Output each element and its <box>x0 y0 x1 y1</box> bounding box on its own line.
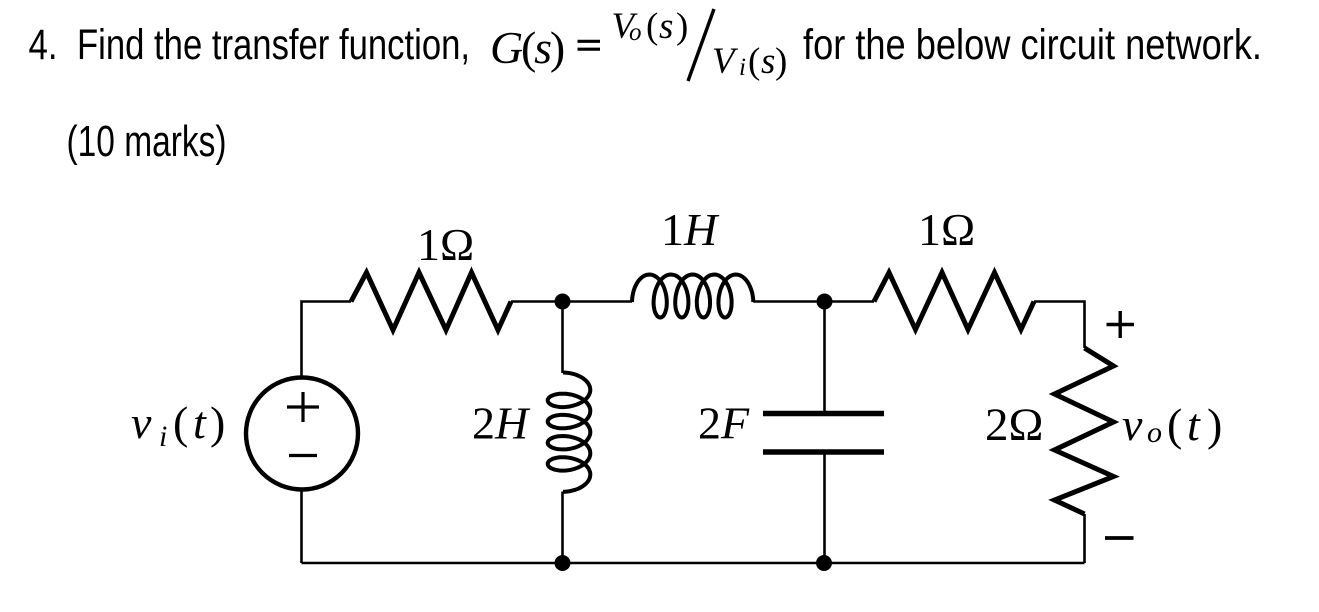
output minus sign <box>1105 536 1134 540</box>
svg-text:t: t <box>193 397 207 448</box>
svg-text:): ) <box>775 41 787 82</box>
wire: R2 to top-right corner down to R3 <box>1034 302 1085 349</box>
svg-text:1Ω: 1Ω <box>417 219 474 270</box>
svg-text:o: o <box>1147 416 1162 449</box>
equation denominator V_i(s) <box>712 41 787 82</box>
svg-text:): ) <box>210 397 225 448</box>
junction dot bottom of 2H branch <box>555 555 571 571</box>
label R3 value 2Ω <box>985 399 1043 451</box>
label R1 value 1Ω <box>417 219 474 270</box>
voltage source minus sign <box>289 454 317 457</box>
node B junction dot (top of 2F branch) <box>817 294 833 310</box>
wire: node A to inductor L1 <box>563 300 633 303</box>
voltage source plus sign <box>287 392 319 422</box>
svg-text:4.: 4. <box>29 21 58 69</box>
wire: source top to resistor R1 <box>302 302 352 378</box>
svg-text:G(s): G(s) <box>490 22 564 73</box>
title text "Find the transfer function," <box>77 21 470 69</box>
capacitor C1 bottom plate <box>763 449 884 455</box>
svg-text:1H: 1H <box>661 204 720 255</box>
resistor R1 1ohm zigzag <box>351 273 511 331</box>
node A junction dot (top of 2H branch) <box>555 294 571 310</box>
title text "for the below circuit network." <box>803 21 1262 69</box>
equation G(s) = <box>490 22 600 73</box>
resistor R3 2ohm vertical zigzag <box>1055 348 1114 514</box>
svg-text:i: i <box>739 54 746 81</box>
wire: inductor L2 to bottom rail <box>561 492 564 564</box>
svg-text:s: s <box>659 6 673 47</box>
svg-text:(: ( <box>1167 399 1182 450</box>
wire: source bottom to bottom rail <box>300 490 303 564</box>
wire: node B to resistor R2 <box>825 300 875 303</box>
equation fraction slash <box>688 9 714 81</box>
label L1 value 1H <box>661 204 720 255</box>
wire: capacitor C1 to bottom rail <box>823 455 826 564</box>
inductor L1 1H horizontal coil <box>632 275 753 318</box>
resistor R2 1ohm zigzag <box>874 273 1034 330</box>
wire: node B down to capacitor C1 <box>823 302 826 412</box>
capacitor C1 top plate <box>763 411 884 417</box>
svg-text:1Ω: 1Ω <box>918 204 975 255</box>
svg-text:2F: 2F <box>698 398 750 449</box>
wire: inductor L1 to node B <box>753 300 824 303</box>
svg-text:2Ω: 2Ω <box>985 399 1043 451</box>
svg-text:for the below circuit network.: for the below circuit network. <box>803 21 1262 69</box>
marks text "(10 marks)" <box>67 117 227 166</box>
svg-text:): ) <box>676 6 688 47</box>
wire: node A down to inductor L2 <box>561 302 564 374</box>
svg-text:(: ( <box>173 397 188 448</box>
svg-text:V: V <box>712 41 739 82</box>
svg-text:i: i <box>159 420 167 453</box>
svg-text:(10 marks): (10 marks) <box>67 117 227 166</box>
svg-text:(: ( <box>646 6 658 47</box>
label R2 value 1Ω <box>918 204 975 255</box>
problem number text "4." <box>29 21 58 69</box>
label C1 value 2F <box>698 398 750 449</box>
svg-text:s: s <box>761 41 775 82</box>
svg-text:2H: 2H <box>472 398 531 449</box>
svg-text:t: t <box>1187 399 1201 450</box>
svg-text:v: v <box>1122 399 1143 450</box>
label L2 value 2H <box>472 398 531 449</box>
svg-text:(: ( <box>748 41 760 82</box>
bottom rail wire <box>302 562 1085 565</box>
svg-text:v: v <box>131 397 152 448</box>
label v_i(t) <box>131 397 225 453</box>
wire: R1 to node A <box>511 300 563 303</box>
svg-text:o: o <box>629 19 642 46</box>
output plus sign <box>1107 311 1135 338</box>
label v_o(t) <box>1122 399 1222 450</box>
svg-text:): ) <box>1207 399 1222 450</box>
svg-text:Find the transfer function,: Find the transfer function, <box>77 21 470 69</box>
wire: R3 to bottom rail <box>1083 514 1086 563</box>
voltage source Vs circle <box>246 378 358 490</box>
junction dot bottom of 2F branch <box>816 555 832 571</box>
equation numerator V_o(s) <box>612 6 689 47</box>
inductor L2 2H vertical coil <box>548 373 591 492</box>
